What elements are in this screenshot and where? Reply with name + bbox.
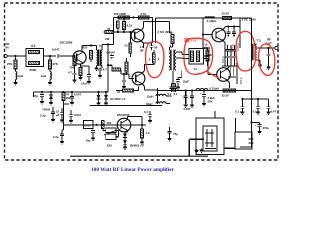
svg-text:4.7: 4.7 — [103, 67, 107, 71]
svg-text:600 p: 600 p — [231, 44, 235, 51]
svg-text:100 1/2W: 100 1/2W — [114, 12, 127, 16]
svg-text:0.047: 0.047 — [52, 48, 60, 52]
svg-text:2.2μ: 2.2μ — [40, 114, 46, 118]
svg-text:2.2μ: 2.2μ — [53, 135, 59, 139]
svg-text:1W: 1W — [140, 48, 144, 52]
svg-text:12uF: 12uF — [81, 82, 88, 86]
svg-text:1700: 1700 — [84, 124, 91, 128]
svg-text:4.7: 4.7 — [140, 45, 144, 49]
svg-text:56: 56 — [154, 45, 158, 49]
svg-text:1/2W: 1/2W — [204, 46, 211, 50]
svg-text:1N 4002 x 2: 1N 4002 x 2 — [110, 97, 126, 101]
svg-text:0.1: 0.1 — [235, 110, 239, 114]
svg-text:1μH: 1μH — [18, 74, 23, 78]
svg-text:100 Watt RF Linear Power ampli: 100 Watt RF Linear Power amplifier — [91, 167, 175, 173]
svg-text:0.1: 0.1 — [144, 110, 148, 114]
svg-text:4.7: 4.7 — [68, 70, 72, 74]
svg-text:0.31: 0.31 — [141, 12, 147, 16]
svg-text:0.1: 0.1 — [253, 110, 257, 114]
svg-text:0.15μH: 0.15μH — [210, 87, 219, 91]
svg-text:0.1: 0.1 — [168, 92, 172, 96]
svg-text:5060: 5060 — [30, 68, 37, 72]
svg-text:2X2: 2X2 — [107, 143, 112, 147]
svg-text:10μ: 10μ — [86, 139, 91, 143]
svg-text:600 p: 600 p — [239, 77, 243, 84]
svg-text:279: 279 — [7, 62, 12, 66]
svg-text:600 p: 600 p — [221, 56, 225, 63]
svg-text:V1: V1 — [194, 67, 198, 71]
svg-text:10: 10 — [124, 44, 128, 48]
svg-text:278: 278 — [53, 62, 58, 66]
svg-text:47μ: 47μ — [33, 94, 38, 98]
svg-text:0.1: 0.1 — [174, 92, 178, 96]
svg-text:Y2003: Y2003 — [42, 108, 51, 112]
svg-text:1N4002 x 2: 1N4002 x 2 — [130, 143, 145, 147]
svg-text:6.15: 6.15 — [127, 24, 133, 28]
svg-text:790: 790 — [70, 65, 75, 69]
svg-text:T.3: T.3 — [257, 39, 261, 43]
svg-text:R25: R25 — [83, 46, 88, 50]
svg-text:IN: IN — [6, 46, 9, 50]
svg-text:45: 45 — [107, 27, 111, 31]
svg-text:0.15μH: 0.15μH — [207, 19, 216, 23]
svg-text:50V: 50V — [208, 100, 213, 104]
svg-text:33 2V: 33 2V — [222, 12, 229, 16]
svg-text:0.47: 0.47 — [271, 110, 277, 114]
svg-text:0.047: 0.047 — [184, 107, 191, 111]
svg-text:47μ: 47μ — [173, 132, 178, 136]
svg-text:1.3: 1.3 — [146, 131, 150, 135]
svg-text:0.047: 0.047 — [74, 93, 81, 97]
svg-text:+: + — [200, 91, 202, 95]
svg-text:0.047: 0.047 — [74, 113, 81, 117]
svg-text:μF: μF — [56, 113, 60, 117]
svg-text:0.0047: 0.0047 — [106, 50, 115, 54]
svg-text:470μ: 470μ — [263, 126, 270, 130]
svg-text:12μH: 12μH — [147, 95, 154, 99]
svg-text:1μH: 1μH — [41, 74, 46, 78]
svg-text:1W: 1W — [105, 37, 110, 41]
svg-text:12μF: 12μF — [183, 79, 190, 83]
svg-text:2SC1589: 2SC1589 — [60, 41, 73, 45]
svg-text:33 2V: 33 2V — [222, 93, 229, 97]
svg-text:560: 560 — [107, 121, 112, 125]
svg-text:2 SC 2290: 2 SC 2290 — [158, 30, 173, 34]
svg-text:3.3: 3.3 — [31, 44, 36, 48]
svg-text:2W: 2W — [66, 96, 71, 100]
svg-text:10μH: 10μH — [146, 102, 153, 106]
